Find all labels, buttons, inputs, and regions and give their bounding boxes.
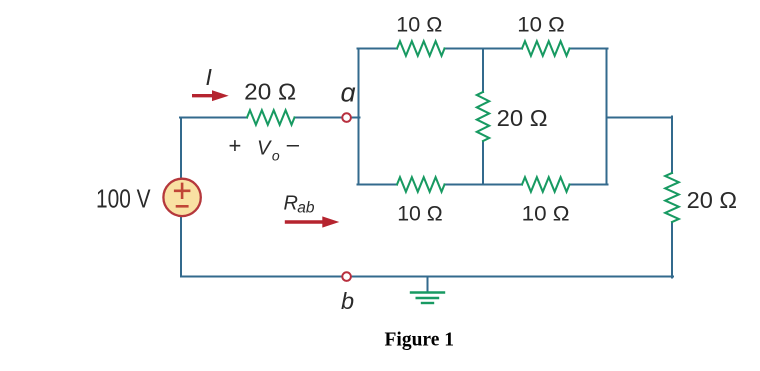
node a terminal — [342, 113, 351, 122]
svg-text:10 Ω: 10 Ω — [517, 12, 565, 36]
voltage source V1 100V — [163, 179, 200, 216]
svg-text:100 V: 100 V — [96, 184, 151, 214]
resistor 10ohm top-right zigzag — [522, 41, 570, 56]
wire bottom horizontal — [181, 276, 673, 278]
resistor 20ohm middle vertical zigzag — [477, 92, 489, 141]
svg-text:R: R — [284, 193, 298, 215]
svg-text:10 Ω: 10 Ω — [397, 201, 443, 225]
wire top rail segments — [358, 48, 608, 50]
wire top-left horizontal to resistor — [180, 117, 247, 119]
svg-text:–: – — [287, 132, 300, 157]
resistor R 20ohm series zigzag — [247, 110, 295, 125]
current arrow I — [194, 94, 213, 97]
svg-text:I: I — [206, 64, 213, 90]
wire connector to right branch — [607, 117, 673, 119]
wire node a to bridge — [351, 117, 360, 119]
svg-text:10 Ω: 10 Ω — [396, 12, 442, 36]
wire bottom rail segments — [358, 184, 608, 186]
resistor 10ohm bottom-right zigzag — [522, 177, 570, 192]
svg-text:ab: ab — [297, 199, 315, 216]
svg-text:Figure 1: Figure 1 — [385, 329, 455, 350]
wire resistor to node a — [295, 117, 343, 119]
ground — [411, 291, 444, 293]
svg-text:20 Ω: 20 Ω — [244, 78, 296, 104]
wire middle vertical segments — [482, 49, 484, 185]
wire right vertical segments — [671, 117, 673, 278]
node b terminal — [342, 272, 351, 281]
resistor 10ohm top-left zigzag — [397, 41, 445, 56]
resistor 20ohm right vertical zigzag — [665, 173, 679, 222]
svg-text:b: b — [341, 288, 354, 314]
wire left vertical — [180, 118, 182, 277]
svg-text:V: V — [257, 137, 272, 159]
svg-text:o: o — [272, 147, 280, 163]
resistor 10ohm bottom-left zigzag — [397, 177, 445, 192]
wire bridge right vertical — [606, 49, 608, 185]
svg-text:10 Ω: 10 Ω — [522, 201, 570, 225]
wire ground stub — [427, 277, 429, 292]
svg-text:+: + — [229, 133, 242, 158]
svg-text:20 Ω: 20 Ω — [687, 187, 738, 213]
arrow Rab — [287, 220, 325, 223]
svg-text:ɑ: ɑ — [341, 77, 356, 107]
wire bridge left vertical — [358, 49, 360, 185]
svg-text:20 Ω: 20 Ω — [497, 105, 548, 131]
